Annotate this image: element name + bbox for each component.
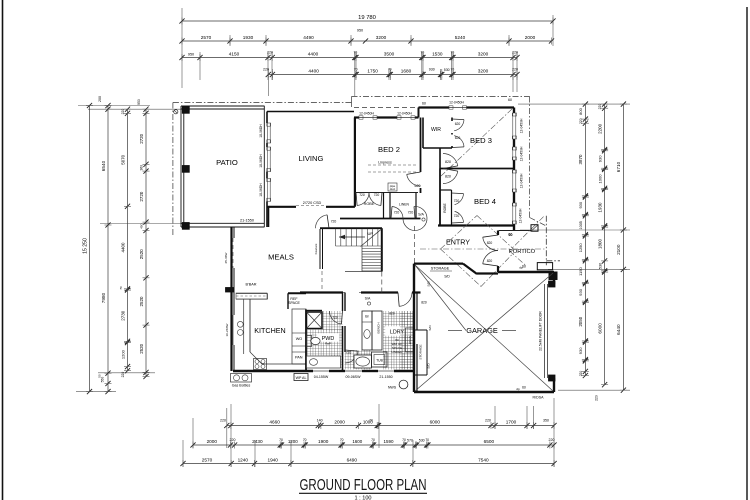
svg-text:220: 220 — [121, 109, 125, 115]
portico outline — [499, 230, 531, 232]
living bottom wall with CSD opening — [267, 206, 296, 208]
laundry tile patch west of garage wall — [400, 311, 413, 369]
svg-text:04-155W: 04-155W — [314, 375, 329, 379]
south wall kitchen-laundry with windows — [233, 370, 313, 372]
svg-text:60: 60 — [522, 386, 526, 390]
svg-text:Linpress: Linpress — [378, 161, 392, 165]
portico diagonals — [509, 217, 543, 251]
stair right wall — [381, 228, 383, 271]
svg-text:220: 220 — [579, 371, 583, 377]
bench strip — [372, 311, 382, 350]
svg-text:1940: 1940 — [267, 457, 278, 462]
garage NE corner block — [549, 272, 557, 280]
svg-text:6000: 6000 — [430, 419, 441, 424]
svg-text:2570: 2570 — [202, 457, 213, 462]
svg-text:15 250: 15 250 — [82, 238, 88, 254]
left dim extension lines — [78, 105, 150, 107]
eave dash-dot outline patio-living — [172, 103, 174, 236]
west wall meals kitchen — [230, 227, 232, 371]
pwd vanity — [307, 356, 341, 368]
svg-text:2430: 2430 — [252, 439, 263, 444]
svg-text:820: 820 — [445, 175, 451, 179]
svg-text:1800: 1800 — [597, 239, 602, 249]
svg-text:2520: 2520 — [139, 296, 144, 306]
left dim col room heights — [145, 109, 147, 376]
right dim extension lines — [518, 103, 630, 105]
svg-text:S/A: S/A — [365, 297, 371, 301]
svg-text:720: 720 — [374, 193, 380, 197]
meals-patio step wall — [268, 207, 270, 227]
svg-text:360: 360 — [140, 165, 144, 171]
svg-text:220: 220 — [579, 118, 583, 124]
kitchen sink circles — [237, 321, 243, 327]
bed4 robe — [451, 190, 453, 226]
svg-text:530: 530 — [598, 263, 602, 269]
stair break diagonal — [361, 229, 382, 247]
stair top wall — [320, 227, 382, 229]
entry decor dash-dot diagonals — [441, 216, 478, 250]
svg-text:220: 220 — [512, 68, 518, 72]
hall east wall / bed4 west — [439, 148, 441, 169]
svg-text:1150: 1150 — [578, 267, 583, 276]
svg-text:350: 350 — [543, 419, 549, 423]
svg-text:2200: 2200 — [597, 123, 602, 133]
svg-text:2570: 2570 — [201, 35, 212, 40]
scan border right — [746, 7, 748, 500]
svg-text:6440: 6440 — [616, 324, 621, 335]
bed2 top wall with windows — [354, 116, 359, 118]
svg-text:SPACE: SPACE — [288, 301, 300, 305]
svg-text:70: 70 — [388, 68, 392, 72]
svg-text:ROBE: ROBE — [443, 202, 447, 212]
svg-text:S/D: S/D — [444, 275, 450, 279]
svg-text:800: 800 — [578, 107, 583, 114]
stair lower flight treads — [362, 248, 382, 250]
svg-text:22.5x48 PANELIFT DOOR: 22.5x48 PANELIFT DOOR — [539, 311, 543, 351]
svg-text:4490: 4490 — [303, 35, 314, 40]
svg-text:2720: 2720 — [139, 191, 144, 201]
WP AL unit — [294, 374, 308, 381]
svg-text:1590: 1590 — [384, 439, 394, 444]
svg-text:70: 70 — [421, 51, 425, 55]
svg-text:3200: 3200 — [376, 35, 387, 40]
svg-text:930: 930 — [429, 68, 435, 72]
svg-text:12-0450H: 12-0450H — [520, 173, 524, 188]
meals kitchen dashed boundary — [321, 271, 323, 293]
stair door 720 — [315, 215, 327, 228]
svg-text:ENTRY: ENTRY — [446, 239, 470, 247]
svg-text:220: 220 — [512, 51, 518, 55]
svg-text:220: 220 — [595, 395, 599, 401]
svg-text:Feature: Feature — [314, 243, 318, 254]
svg-text:530: 530 — [419, 439, 425, 443]
svg-text:PORTICO: PORTICO — [509, 249, 536, 255]
bottom dim row B — [193, 444, 554, 446]
left dim col 5070/4400 — [127, 109, 129, 371]
garage cross diagonals — [415, 265, 553, 391]
svg-text:720: 720 — [332, 316, 338, 320]
svg-text:dp: dp — [516, 387, 520, 391]
svg-text:25-36W: 25-36W — [224, 252, 228, 263]
svg-text:70: 70 — [279, 438, 283, 442]
svg-text:930: 930 — [578, 201, 583, 208]
svg-text:220: 220 — [220, 419, 226, 423]
living top wall — [267, 111, 354, 113]
scan border left — [2, 0, 4, 500]
linen doors 720 — [392, 207, 403, 219]
svg-text:STORAGE: STORAGE — [431, 267, 450, 271]
right dim col 2 — [604, 104, 606, 385]
svg-text:1200: 1200 — [288, 439, 298, 444]
svg-text:60: 60 — [509, 233, 513, 237]
west windows dashes — [232, 238, 234, 268]
shower — [307, 312, 323, 329]
svg-text:220: 220 — [263, 68, 269, 72]
storage nib walls entry-garage — [414, 263, 463, 265]
svg-text:21-1550: 21-1550 — [240, 219, 254, 223]
top dim row 2 — [182, 40, 552, 42]
svg-text:140: 140 — [317, 419, 323, 423]
svg-text:220: 220 — [549, 438, 555, 442]
bed3 door arc 820 — [443, 153, 458, 165]
svg-text:18-06DH: 18-06DH — [259, 124, 263, 138]
svg-text:720: 720 — [359, 193, 365, 197]
svg-text:6000: 6000 — [597, 323, 602, 334]
svg-text:NWS: NWS — [388, 386, 397, 390]
gas bottles — [231, 374, 252, 383]
kitchen benches — [243, 299, 245, 354]
svg-text:720: 720 — [408, 211, 414, 215]
bed3 bed4 dividing wall — [440, 168, 514, 170]
svg-text:1250: 1250 — [578, 243, 583, 253]
bottom dim row A — [227, 425, 554, 427]
svg-text:820: 820 — [487, 259, 493, 263]
svg-text:BENCH: BENCH — [377, 323, 381, 334]
svg-text:2100: 2100 — [616, 244, 621, 255]
step wall bed2 to bed3 — [418, 108, 420, 118]
garage walls — [498, 271, 554, 273]
bed2 door arc — [407, 174, 421, 186]
east wall with windows — [513, 108, 515, 114]
svg-text:620: 620 — [455, 136, 461, 140]
svg-text:4150: 4150 — [229, 51, 240, 56]
svg-text:200: 200 — [98, 96, 102, 102]
roof hip diagonal bed3 — [441, 109, 512, 176]
west pier at bbar — [226, 288, 235, 293]
br linen column — [362, 311, 372, 350]
patio pillars — [182, 107, 189, 114]
svg-text:220: 220 — [267, 51, 273, 55]
svg-text:950: 950 — [188, 52, 194, 56]
svg-text:12-0450H: 12-0450H — [449, 101, 464, 105]
svg-text:6490: 6490 — [347, 457, 358, 462]
svg-text:70: 70 — [451, 68, 455, 72]
svg-text:09-06SW: 09-06SW — [346, 375, 362, 379]
svg-text:R/DSA: R/DSA — [533, 396, 545, 400]
svg-text:PwP: PwP — [325, 342, 331, 346]
svg-text:12-0450H: 12-0450H — [397, 112, 412, 116]
svg-text:12-0450H: 12-0450H — [520, 146, 524, 161]
svg-text:LINEN: LINEN — [399, 203, 409, 207]
svg-text:720: 720 — [346, 351, 352, 355]
linen strip right — [406, 328, 415, 352]
svg-text:950: 950 — [137, 99, 141, 105]
bed4 door arc 820 — [443, 171, 458, 183]
svg-text:PAN: PAN — [295, 356, 303, 360]
left dim col 6540/7980 — [107, 106, 109, 392]
pipe duct — [388, 183, 397, 191]
svg-text:950: 950 — [357, 29, 363, 33]
bbar bench dashed — [236, 293, 267, 299]
panelift door jambs — [549, 281, 556, 287]
svg-text:7980: 7980 — [101, 292, 106, 303]
svg-text:STORAGE: STORAGE — [419, 344, 423, 359]
entry dashed boundary — [414, 226, 416, 263]
svg-text:70: 70 — [119, 286, 123, 290]
bath lobby tiles and bath — [345, 350, 372, 370]
living west window sills — [267, 123, 269, 143]
svg-text:4400: 4400 — [120, 242, 125, 252]
svg-text:6540: 6540 — [101, 160, 106, 171]
pwd door 720 — [329, 311, 341, 324]
svg-text:S/A: S/A — [418, 213, 424, 217]
svg-text:1200: 1200 — [120, 349, 125, 359]
portico column bottom — [537, 263, 552, 270]
svg-text:1750: 1750 — [367, 68, 378, 73]
svg-text:MEALS: MEALS — [268, 253, 294, 262]
svg-text:2520: 2520 — [139, 249, 144, 259]
right dim col 3 — [622, 104, 624, 390]
svg-text:70: 70 — [340, 438, 344, 442]
left dim col total 15 250 — [89, 106, 91, 392]
svg-text:720: 720 — [454, 214, 460, 218]
svg-text:820: 820 — [487, 241, 493, 245]
eave dashed line over bed2 — [354, 107, 419, 109]
svg-text:930: 930 — [578, 347, 583, 354]
svg-text:WP AL: WP AL — [296, 376, 307, 380]
svg-text:2720: 2720 — [139, 133, 144, 143]
svg-text:10-26SW: 10-26SW — [225, 323, 229, 336]
svg-text:TUB: TUB — [376, 359, 383, 363]
pwd tiles — [323, 311, 343, 331]
svg-text:S/D: S/D — [427, 363, 431, 369]
kitchen meals divider and fridge nib — [288, 292, 306, 294]
svg-text:1000: 1000 — [597, 174, 602, 184]
svg-text:1530: 1530 — [432, 51, 443, 56]
svg-text:ROBE: ROBE — [364, 202, 375, 206]
svg-text:1930: 1930 — [243, 35, 254, 40]
kitchen tall cabinets WO PAN — [292, 309, 306, 364]
svg-text:BED 3: BED 3 — [470, 136, 492, 145]
svg-text:dp: dp — [519, 266, 523, 270]
svg-text:B'BAR: B'BAR — [245, 283, 256, 287]
svg-text:4660: 4660 — [269, 419, 280, 424]
svg-text:1600: 1600 — [352, 439, 362, 444]
top dim row 3 — [182, 57, 517, 59]
right dim col 1 — [584, 104, 586, 375]
svg-text:2520: 2520 — [139, 343, 144, 353]
laundry door 820 — [399, 293, 412, 307]
top dim extension lines — [181, 8, 183, 88]
svg-text:6500: 6500 — [484, 439, 495, 444]
portico column top — [531, 225, 538, 232]
svg-text:1900: 1900 — [318, 439, 329, 444]
svg-text:duct: duct — [390, 187, 396, 191]
svg-text:70: 70 — [402, 438, 406, 442]
svg-text:WO: WO — [296, 337, 303, 341]
patio walls — [181, 105, 265, 107]
svg-text:5240: 5240 — [455, 35, 466, 40]
svg-text:WIR: WIR — [431, 127, 441, 133]
kitchen bench south diagonal — [250, 352, 262, 364]
eave dash-dot east side — [529, 97, 531, 218]
svg-text:820: 820 — [445, 160, 451, 164]
svg-text:KITCHEN: KITCHEN — [254, 327, 285, 335]
bed2 east / hall wall — [420, 118, 422, 173]
svg-text:2730: 2730 — [120, 310, 125, 320]
svg-text:1700: 1700 — [506, 419, 517, 424]
svg-text:PATIO: PATIO — [216, 158, 238, 167]
svg-text:2000: 2000 — [525, 35, 536, 40]
stove — [254, 359, 267, 370]
living west wall with windows — [263, 106, 265, 227]
svg-text:12-0450H: 12-0450H — [359, 112, 374, 116]
svg-text:930: 930 — [578, 288, 583, 295]
svg-text:820: 820 — [421, 301, 427, 305]
svg-text:7540: 7540 — [478, 457, 489, 462]
svg-text:70: 70 — [369, 419, 373, 423]
svg-text:620: 620 — [455, 122, 461, 126]
svg-text:220: 220 — [485, 419, 491, 423]
bottom dim row C — [183, 463, 554, 465]
svg-text:18-06DH: 18-06DH — [259, 183, 263, 197]
svg-text:1005: 1005 — [579, 221, 583, 229]
robe linen strip walls — [355, 192, 418, 194]
svg-text:2000: 2000 — [207, 439, 218, 444]
svg-text:450: 450 — [140, 223, 144, 228]
svg-text:1680: 1680 — [401, 68, 412, 73]
bed4 bottom wall — [438, 224, 514, 226]
bottom dim extension lines — [182, 440, 184, 467]
svg-text:19 780: 19 780 — [358, 15, 376, 21]
svg-text:930: 930 — [597, 155, 602, 162]
svg-text:60: 60 — [508, 98, 512, 102]
stair UP arrow — [339, 236, 365, 238]
svg-text:720: 720 — [454, 199, 460, 203]
top dim row 1 total 19 780 — [182, 20, 553, 22]
svg-text:3200: 3200 — [478, 51, 489, 56]
svg-text:UP: UP — [368, 231, 374, 236]
svg-text:720: 720 — [394, 211, 400, 215]
svg-text:220: 220 — [598, 104, 602, 110]
svg-text:18-06DH: 18-06DH — [259, 154, 263, 168]
WIR walls — [422, 118, 424, 149]
svg-text:12-0450H: 12-0450H — [520, 118, 524, 133]
svg-text:720: 720 — [331, 220, 337, 224]
svg-text:2/720 CSD: 2/720 CSD — [303, 201, 322, 205]
svg-text:60: 60 — [422, 102, 426, 106]
hall-bath door 720 — [346, 351, 359, 363]
svg-text:220: 220 — [121, 372, 125, 378]
svg-text:70: 70 — [451, 51, 455, 55]
svg-text:70: 70 — [371, 438, 375, 442]
pwd walls — [305, 310, 307, 372]
svg-text:12-0450H: 12-0450H — [519, 208, 523, 223]
svg-text:70: 70 — [303, 438, 307, 442]
svg-text:3500: 3500 — [384, 51, 395, 56]
svg-text:S/D: S/D — [428, 325, 432, 331]
svg-text:2050: 2050 — [578, 316, 583, 326]
wc toilet — [307, 336, 312, 347]
pwd label — [317, 334, 339, 342]
svg-text:70: 70 — [425, 438, 429, 442]
svg-text:S/D: S/D — [427, 281, 431, 287]
svg-text:BED 2: BED 2 — [378, 145, 400, 154]
svg-text:2000: 2000 — [334, 419, 345, 424]
svg-text:4400: 4400 — [308, 68, 319, 73]
svg-text:530: 530 — [444, 68, 450, 72]
panelift door — [544, 284, 546, 378]
robe doors 720 — [357, 193, 369, 206]
svg-text:6710: 6710 — [616, 161, 621, 172]
WIR door arcs 620 — [454, 120, 464, 131]
tub — [372, 352, 388, 367]
svg-text:3200: 3200 — [478, 68, 489, 73]
svg-text:3870: 3870 — [578, 154, 583, 164]
svg-text:21-1550: 21-1550 — [379, 375, 392, 379]
bath oval — [354, 355, 372, 368]
svg-text:50: 50 — [98, 374, 102, 378]
svg-text:BED 4: BED 4 — [474, 197, 497, 206]
svg-text:1240: 1240 — [238, 457, 249, 462]
entry door wall and double doors 820 — [497, 231, 499, 236]
svg-text:1 : 100: 1 : 100 — [354, 496, 371, 500]
stair treads upper flight — [335, 229, 337, 246]
svg-text:1930: 1930 — [597, 202, 602, 212]
svg-text:220: 220 — [230, 438, 236, 442]
ldry tiles — [383, 311, 415, 370]
linpress dashed cabinet — [368, 164, 416, 166]
svg-text:4400: 4400 — [308, 51, 319, 56]
svg-text:5070: 5070 — [120, 154, 125, 164]
bed2 west wall — [354, 118, 356, 207]
svg-text:LIVING: LIVING — [299, 154, 324, 163]
svg-text:GROUND FLOOR PLAN: GROUND FLOOR PLAN — [300, 477, 427, 494]
svg-text:70: 70 — [354, 68, 358, 72]
svg-text:70: 70 — [354, 51, 358, 55]
top dim row 4 — [268, 74, 517, 76]
ldry label — [386, 327, 409, 336]
pwd ldry top wall — [300, 291, 343, 293]
bed3 top wall with window — [419, 106, 450, 108]
svg-text:Gas Bottles: Gas Bottles — [232, 384, 251, 388]
stair feature wall — [319, 229, 321, 269]
garage storage strip — [414, 329, 427, 331]
patio corner anchor mark — [174, 110, 178, 114]
svg-text:570: 570 — [407, 439, 413, 443]
